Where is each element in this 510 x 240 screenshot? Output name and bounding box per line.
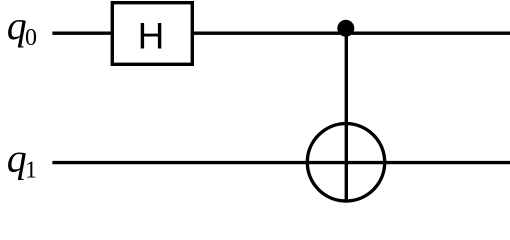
svg-text:q: q xyxy=(7,136,27,181)
svg-text:H: H xyxy=(138,16,165,57)
svg-text:0: 0 xyxy=(25,25,37,51)
svg-text:q: q xyxy=(7,3,27,48)
svg-text:1: 1 xyxy=(25,157,37,183)
